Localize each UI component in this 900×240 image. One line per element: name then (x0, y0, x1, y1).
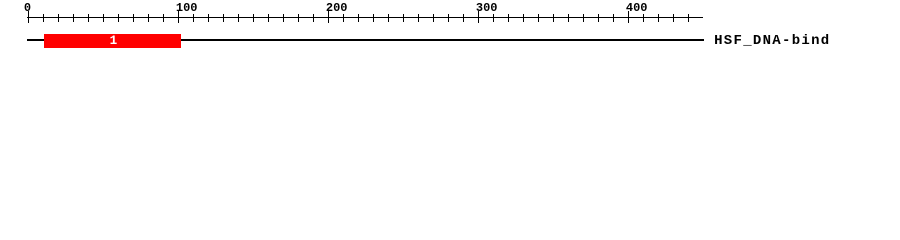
background (0, 0, 900, 58)
ruler minor ticks (every 10 residues = 15px) (43, 14, 689, 22)
ruler baseline (27, 17, 703, 18)
ruler major tick 200 (328, 11, 329, 23)
domain box 1 (HSF_DNA-bind, red) (44, 34, 181, 48)
ruler major tick 300 (478, 11, 479, 23)
svg-text:100: 100 (176, 1, 198, 15)
svg-text:HSF_DNA-bind: HSF_DNA-bind (714, 33, 830, 49)
svg-text:300: 300 (476, 1, 498, 15)
svg-text:0: 0 (24, 1, 31, 15)
svg-text:1: 1 (110, 34, 118, 48)
svg-text:200: 200 (326, 1, 348, 15)
protein backbone line (27, 39, 704, 41)
svg-text:400: 400 (626, 1, 648, 15)
ruler major tick 100 (178, 11, 179, 23)
ruler major tick 0 (28, 11, 29, 23)
ruler major tick 400 (628, 11, 629, 23)
